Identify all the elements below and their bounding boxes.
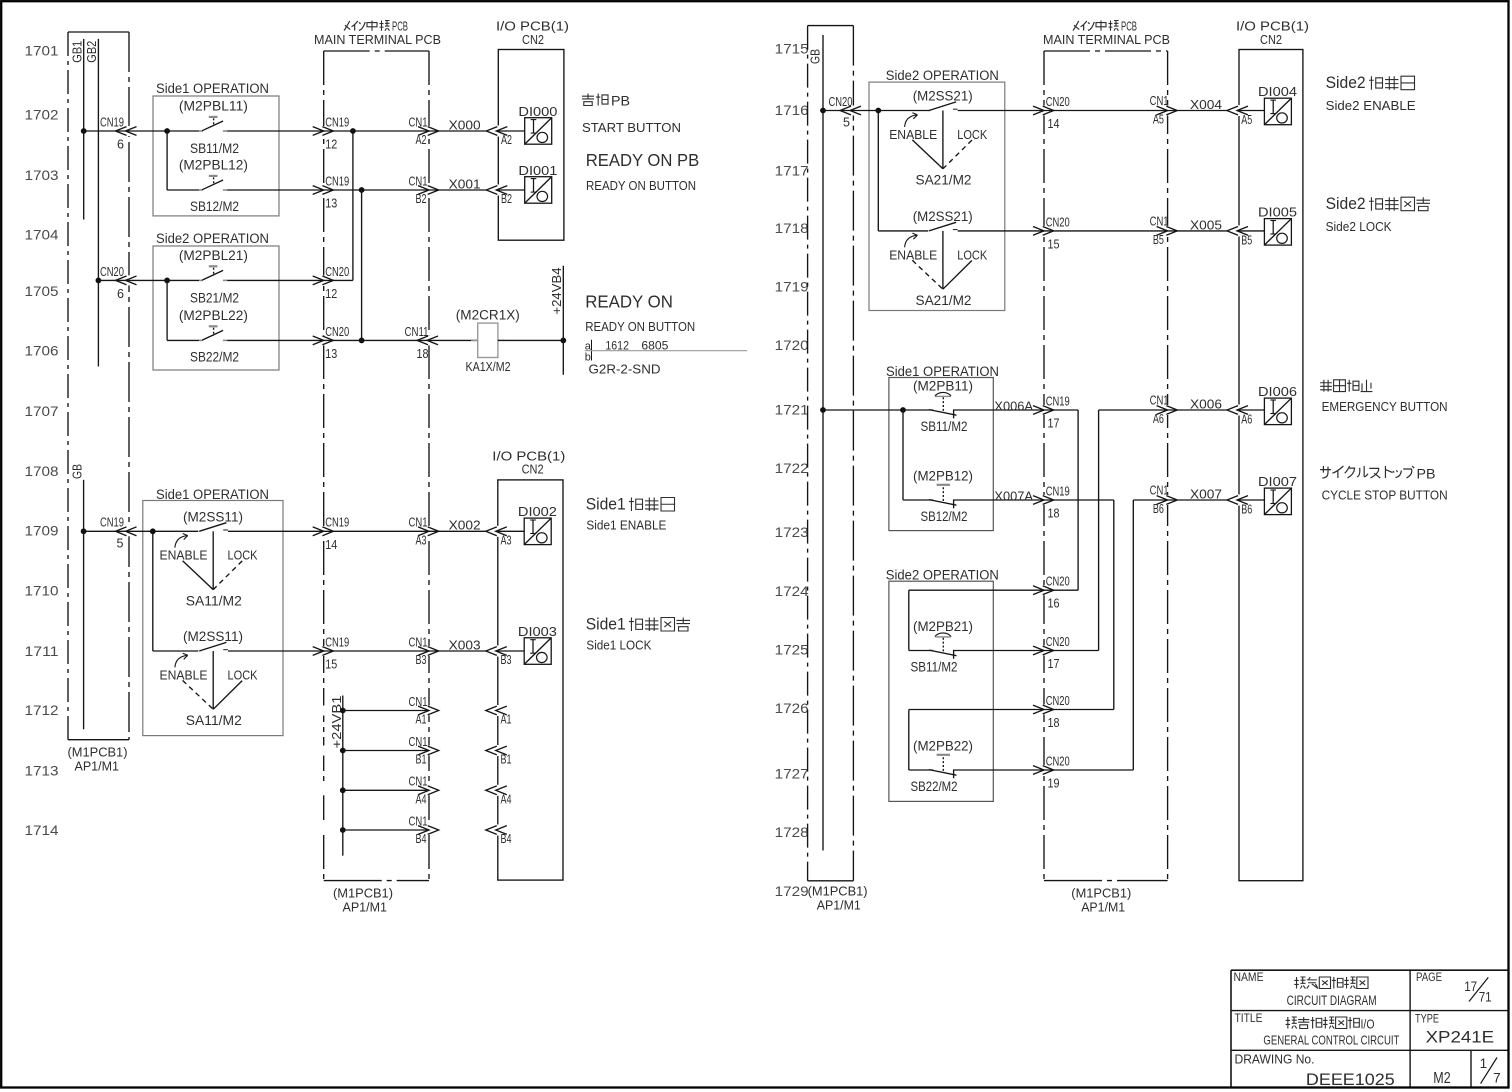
node r1 branch inside box [875,108,881,114]
svg-text:SB21/M2: SB21/M2 [190,290,239,305]
vertical tie CN20.19 to X007 [1132,500,1134,770]
vertical tie CN20.17 to X006 [1098,410,1100,651]
wire r3 pushbutton to main PCB [954,409,1044,411]
svg-text:CN20: CN20 [829,95,853,109]
connector arrow CN19 pin6 [116,127,127,136]
svg-text:12: 12 [325,138,337,152]
svg-text:CN20: CN20 [1046,215,1070,229]
svg-text:ENABLE: ENABLE [889,248,937,262]
node +24VB1 row B4 [340,827,346,833]
svg-text:DI000: DI000 [518,104,557,119]
svg-text:B5: B5 [1241,233,1252,247]
connector arrow CN1 pinA5 [1157,106,1168,115]
svg-text:SB12/M2: SB12/M2 [921,509,968,524]
connector arrow I/O A2 [486,127,497,136]
vertical tie CN19.17 to CN20.16 [1077,410,1079,590]
svg-text:1715: 1715 [775,41,809,57]
svg-text:XP241E: XP241E [1426,1028,1495,1046]
svg-text:PB: PB [611,93,630,109]
svg-text:I/O: I/O [1361,1017,1375,1032]
svg-text:X006: X006 [1190,397,1222,412]
svg-text:18: 18 [417,347,429,361]
svg-text:I/O PCB(1): I/O PCB(1) [1236,20,1309,34]
svg-text:16: 16 [1048,597,1060,611]
vertical feed inside Side2 box to M2PB21 [908,590,910,650]
connector arrow CN1 pinB1 [418,746,429,755]
svg-text:CN20: CN20 [1046,575,1070,589]
wire r7 feed CN20.18 into Side2 box [909,709,1044,711]
svg-text:B4: B4 [501,832,512,846]
Side2 OPERATION box upper [153,246,279,370]
wire r6 inside main PCB to v2 [1044,650,1099,652]
svg-text:CN1: CN1 [1150,394,1169,408]
connector arrow CN1 pinB2 [418,186,429,195]
wire X003 to I/O PCB [429,650,487,652]
connector arrow CN1 pinA6 [1157,406,1168,415]
svg-text:CN20: CN20 [1046,635,1070,649]
svg-text:CN1: CN1 [409,115,428,129]
svg-text:A2: A2 [501,133,512,147]
connector arrow CN19 pin13 [313,186,324,195]
wire to DI001 [497,189,525,191]
svg-text:AP1/M1: AP1/M1 [1081,900,1125,915]
svg-text:(M2PB22): (M2PB22) [913,739,973,754]
svg-text:(M1PCB1): (M1PCB1) [808,884,868,899]
svg-text:GB: GB [809,49,823,64]
wire r2 selector to main PCB [958,230,1044,232]
svg-text:DI002: DI002 [518,504,557,519]
connector arrow CN19 pin15 [313,647,324,656]
svg-text:1719: 1719 [775,279,809,295]
main terminal PCB box left [324,50,429,52]
svg-text:DI003: DI003 [518,624,557,639]
svg-text:1726: 1726 [775,700,809,716]
Side1 OPERATION box upper [153,96,279,216]
svg-text:READY ON PB: READY ON PB [586,150,700,170]
wire X006 to I/O PCB [1168,409,1228,411]
svg-text:SB11/M2: SB11/M2 [190,141,239,156]
connector arrow I/O A1 [486,706,497,715]
svg-text:1716: 1716 [775,102,809,118]
svg-text:GENERAL CONTROL CIRCUIT: GENERAL CONTROL CIRCUIT [1263,1033,1399,1048]
connector arrow I/O B2 [486,186,497,195]
connector arrow I/O B3 [486,647,497,656]
svg-text:AP1/M1: AP1/M1 [75,759,120,774]
svg-text:A2: A2 [416,133,427,147]
wire +24VB1 to CN1 B1 [343,750,429,752]
svg-text:START BUTTON: START BUTTON [582,120,681,135]
svg-text:13: 13 [325,347,337,361]
Side2 OPERATION box lower right [889,581,993,801]
svg-text:X000: X000 [449,117,481,132]
node +24VB1 row A1 [340,708,346,714]
wire r2 feed from r1 [877,111,879,231]
svg-text:SB12/M2: SB12/M2 [190,199,239,214]
wire to DI003 [496,650,524,652]
svg-text:5: 5 [843,116,850,130]
svg-text:A6: A6 [1241,413,1252,427]
wire w6 selector to main PCB [228,650,324,652]
connector arrow CN20 pin14 right [1033,106,1044,115]
svg-text:DEEE1025: DEEE1025 [1306,1071,1395,1089]
svg-text:(M1PCB1): (M1PCB1) [333,886,393,901]
svg-text:X007: X007 [1190,487,1222,502]
svg-text:1728: 1728 [775,824,809,840]
wire r6 pushbutton out CN20.17 [954,650,1044,652]
wire w1 inside main PCB [324,130,429,132]
svg-text:1: 1 [1480,1056,1488,1071]
connector arrow CN19 pin5 [116,527,127,536]
node w3 branch to SB22 [164,278,170,284]
svg-text:DI006: DI006 [1258,384,1297,399]
svg-text:19: 19 [1048,777,1060,791]
svg-text:12: 12 [325,287,337,301]
connector arrow I/O B4 [486,826,497,835]
wire +24VB1 to CN1 A4 [343,789,429,791]
wire to DI006 [1237,409,1264,411]
connector arrow I/O A5 [1227,106,1238,115]
wire r1 inside main PCB [1044,110,1168,112]
svg-text:15: 15 [1048,237,1060,251]
svg-text:(M2PB12): (M2PB12) [913,469,973,484]
svg-text:1725: 1725 [775,641,809,657]
svg-text:B4: B4 [416,832,427,846]
svg-text:CN19: CN19 [325,174,349,188]
wire w4 feed from w3 [166,280,168,340]
svg-text:(M2SS21): (M2SS21) [913,89,973,104]
connector arrow CN19 pin17 right [1033,406,1044,415]
svg-text:B5: B5 [1153,233,1164,247]
svg-text:13: 13 [325,197,337,211]
svg-text:SA21/M2: SA21/M2 [916,173,972,188]
wire w2 feed from w1 [166,131,168,190]
svg-text:LOCK: LOCK [228,668,259,682]
caption EMERGENCY BUTTON [1320,380,1332,392]
svg-text:CN1: CN1 [409,695,428,709]
connector arrow I/O B5 [1227,227,1238,236]
svg-text:READY ON BUTTON: READY ON BUTTON [585,319,695,334]
svg-text:(M2SS11): (M2SS11) [183,629,243,644]
svg-text:ENABLE: ENABLE [889,128,937,142]
wire w1 GB1 to switch SB11 [84,130,199,132]
svg-text:1718: 1718 [775,220,809,236]
wire r2 inside main PCB [1044,230,1168,232]
svg-text:A5: A5 [1153,113,1164,127]
wire X002 to I/O PCB [429,530,487,532]
svg-text:A3: A3 [501,533,512,547]
svg-text:71: 71 [1479,990,1492,1005]
svg-text:READY ON BUTTON: READY ON BUTTON [586,178,696,193]
svg-text:PCB: PCB [392,20,408,34]
svg-text:DI005: DI005 [1258,205,1297,220]
svg-text:Side2: Side2 [1326,74,1366,92]
svg-text:Side2 OPERATION: Side2 OPERATION [156,231,269,246]
wire r8 pushbutton out CN20.19 [954,769,1044,771]
svg-text:(M2PBL22): (M2PBL22) [179,308,248,323]
I/O PCB(1) CN2 box lower left [498,480,563,880]
wire r4 inside main PCB to tie v3 [1044,499,1114,501]
svg-text:B1: B1 [416,753,427,767]
svg-text:(M2PBL11): (M2PBL11) [179,98,248,113]
svg-text:1720: 1720 [775,337,809,353]
svg-text:1717: 1717 [775,162,809,178]
svg-text:I/O PCB(1): I/O PCB(1) [496,20,569,34]
svg-text:Side2 OPERATION: Side2 OPERATION [886,567,999,582]
svg-text:TITLE: TITLE [1235,1011,1263,1025]
node X001 junction [359,187,365,193]
connector arrow CN1 pinA3 [418,527,429,536]
svg-text:1705: 1705 [25,283,59,299]
caption CYCLE STOP BUTTON [1320,466,1331,478]
svg-text:(M2PB11): (M2PB11) [913,379,973,394]
wire w3 switch to main PCB [227,279,324,281]
svg-text:MAIN TERMINAL PCB: MAIN TERMINAL PCB [1043,33,1170,47]
svg-text:1703: 1703 [25,167,59,183]
operator panel PCB box (M1PCB1) AP1/M1 right [808,25,854,27]
svg-text:SA21/M2: SA21/M2 [916,293,972,308]
svg-text:DI001: DI001 [518,163,557,178]
svg-text:6: 6 [117,287,124,301]
wire to DI007 [1237,499,1264,501]
svg-text:SA11/M2: SA11/M2 [186,713,242,728]
wire w1 switch to main PCB [227,130,324,132]
svg-text:1721: 1721 [775,402,809,418]
svg-text:DRAWING No.: DRAWING No. [1235,1053,1315,1067]
svg-text:X005: X005 [1190,217,1222,232]
svg-text:SA11/M2: SA11/M2 [186,593,242,608]
wire w6 feed from w5 [152,531,154,651]
svg-text:AP1/M1: AP1/M1 [343,900,388,915]
svg-text:(M1PCB1): (M1PCB1) [1071,886,1131,901]
svg-text:B6: B6 [1241,503,1252,517]
svg-text:+24VB4: +24VB4 [550,267,564,314]
svg-text:17: 17 [1048,417,1060,431]
label MAIN TERMINAL PCB left [344,21,350,31]
svg-text:1701: 1701 [25,43,59,59]
svg-text:X003: X003 [449,637,481,652]
wire to DI004 [1237,110,1264,112]
svg-text:1712: 1712 [25,702,59,718]
svg-text:ENABLE: ENABLE [160,549,208,563]
svg-text:Side1 ENABLE: Side1 ENABLE [586,517,666,532]
wire X006 segment to CN1.A6 [1099,409,1168,411]
Side2 OPERATION box upper right [869,82,1005,310]
svg-text:CN1: CN1 [1150,484,1169,498]
svg-text:1704: 1704 [25,227,59,243]
svg-text:Side1: Side1 [586,616,626,634]
svg-text:PAGE: PAGE [1416,970,1442,984]
Side1 OPERATION box right [889,378,993,531]
node GB-CN20.5 [820,108,826,114]
svg-text:CN11: CN11 [405,325,429,339]
svg-text:GB1: GB1 [71,41,85,63]
connector arrow CN19 pin14 [313,527,324,536]
wire r5 feed CN20.16 into Side2 box [909,589,1044,591]
svg-text:Side1 OPERATION: Side1 OPERATION [886,364,999,379]
connector arrow CN1 pinB4 [418,826,429,835]
svg-text:(M2PBL12): (M2PBL12) [179,157,248,172]
svg-text:15: 15 [325,658,337,672]
svg-text:A4: A4 [501,792,512,806]
svg-text:CN20: CN20 [325,265,349,279]
svg-text:CN20: CN20 [100,265,124,279]
vertical feed inside Side2 box to M2PB22 [908,710,910,771]
svg-text:1711: 1711 [25,643,59,659]
connector arrow CN20 pin16 [1033,586,1044,595]
svg-text:1707: 1707 [25,403,59,419]
svg-text:1723: 1723 [775,524,809,540]
vertical tie CN19.12 to CN20.12 [352,131,354,280]
svg-text:1729: 1729 [775,883,809,899]
svg-text:LOCK: LOCK [228,549,259,563]
svg-text:1724: 1724 [775,583,809,599]
svg-text:B1: B1 [501,753,512,767]
svg-text:CN1: CN1 [409,735,428,749]
svg-text:17: 17 [1464,979,1477,994]
svg-text:CN1: CN1 [409,516,428,530]
svg-text:A4: A4 [416,793,427,807]
svg-text:A3: A3 [416,534,427,548]
svg-text:CYCLE STOP BUTTON: CYCLE STOP BUTTON [1322,487,1448,502]
svg-text:CN20: CN20 [1046,694,1070,708]
wire r7 inside main PCB to v3 [1044,709,1114,711]
wire X007 segment to CN1.B6 [1133,499,1167,501]
svg-text:18: 18 [1048,507,1060,521]
connector arrow CN20 pin19 [1033,766,1044,775]
wire w5 inside main PCB [324,530,429,532]
svg-text:18: 18 [1048,716,1060,730]
wire w4 to relay coil [429,339,478,341]
svg-text:I/O PCB(1): I/O PCB(1) [492,449,565,463]
svg-text:CN1: CN1 [409,775,428,789]
node X000 junction [350,128,356,134]
wire X007 to I/O PCB [1168,499,1228,501]
svg-text:DI004: DI004 [1258,84,1297,99]
svg-text:1714: 1714 [25,822,59,838]
svg-text:CN19: CN19 [100,516,124,530]
I/O PCB(1) CN2 box upper left [498,50,564,241]
svg-text:CIRCUIT DIAGRAM: CIRCUIT DIAGRAM [1287,993,1377,1008]
node GB-X006 tap [820,407,826,413]
svg-text:X001: X001 [449,176,481,191]
svg-text:SB11/M2: SB11/M2 [911,660,958,675]
svg-text:1722: 1722 [775,460,809,476]
wire +24VB1 to CN1 B4 [343,829,429,831]
wire w3 GB2 to switch SB21 [98,279,199,281]
svg-text:CN19: CN19 [325,115,349,129]
svg-text:CN19: CN19 [1046,484,1070,498]
svg-text:(M2SS21): (M2SS21) [913,209,973,224]
svg-text:B2: B2 [416,192,427,206]
svg-text:GB: GB [71,464,85,479]
svg-text:1709: 1709 [25,523,59,539]
wire r1 GB to selector SA21 [823,110,930,112]
connector arrow I/O A3 [486,527,497,536]
caption START BUTTON [582,94,594,106]
svg-text:TYPE: TYPE [1415,1012,1439,1026]
svg-text:CN1: CN1 [409,814,428,828]
svg-text:Side2 LOCK: Side2 LOCK [1326,219,1392,234]
svg-text:CN1: CN1 [1150,214,1169,228]
svg-text:1727: 1727 [775,766,809,782]
svg-text:X006A: X006A [994,400,1033,414]
svg-text:CN20: CN20 [1046,754,1070,768]
connector arrow CN1 pinB5 [1157,227,1168,236]
wire X001 to I/O PCB [429,189,487,191]
connector arrow CN1 pinB6 [1157,496,1168,505]
svg-text:MAIN TERMINAL PCB: MAIN TERMINAL PCB [314,33,441,47]
svg-text:5: 5 [117,536,124,550]
svg-text:A1: A1 [501,713,512,727]
wire X005 to I/O PCB [1168,230,1228,232]
wire relay to +24VB4 [498,339,563,341]
node +24VB1 row B1 [340,748,346,754]
connector arrow CN19 pin12 [313,127,324,136]
connector arrow I/O A4 [486,786,497,795]
connector arrow CN1 pinA2 [418,127,429,136]
svg-text:Side1 OPERATION: Side1 OPERATION [156,487,269,502]
wire r4 feed from r3 [902,410,904,500]
connector arrow CN1 pinB3 [418,647,429,656]
svg-text:1706: 1706 [25,343,59,359]
svg-text:1708: 1708 [25,463,59,479]
svg-text:G2R-2-SND: G2R-2-SND [589,362,661,377]
svg-text:(M2PB21): (M2PB21) [913,619,973,634]
connector arrow CN20 pin5 right [840,106,851,115]
svg-text:1710: 1710 [25,582,59,598]
svg-text:CN20: CN20 [325,325,349,339]
svg-text:DI007: DI007 [1258,474,1297,489]
wire w6 inside main PCB [324,650,429,652]
svg-text:B2: B2 [501,192,512,206]
label MAIN TERMINAL PCB right [1073,21,1079,31]
svg-text:SB22/M2: SB22/M2 [911,779,958,794]
svg-text:NAME: NAME [1234,970,1264,984]
wire r8 inside main PCB to v4 [1044,769,1133,771]
wire r4 pushbutton to main PCB [954,499,1044,501]
svg-text:KA1X/M2: KA1X/M2 [466,359,511,374]
wire X004 to I/O PCB [1168,110,1228,112]
svg-text:EMERGENCY BUTTON: EMERGENCY BUTTON [1322,399,1448,414]
node w5 branch inside box [150,528,156,534]
node +24VB1 row A4 [340,787,346,793]
connector arrow CN20 pin12 [313,276,324,285]
svg-text:B3: B3 [416,653,427,667]
wire r5 inside main PCB to v1 [1044,589,1078,591]
svg-text:Side1 OPERATION: Side1 OPERATION [156,81,269,96]
svg-text:17: 17 [1048,657,1060,671]
connector arrow CN20 pin13 [313,336,324,345]
svg-text:LOCK: LOCK [957,128,988,142]
svg-text:Side2: Side2 [1326,195,1366,213]
wire w4 inside main PCB [324,339,429,341]
wire w2 switch to main PCB [227,189,324,191]
connector arrow CN20 pin15 right [1033,227,1044,236]
node r3 branch to M2PB12 [900,407,906,413]
wire X000 to I/O PCB [429,130,487,132]
main terminal PCB box right [1044,50,1168,52]
connector arrow CN20 pin17 [1033,646,1044,655]
node GB-CN19.5 [81,528,87,534]
svg-text:X007A: X007A [994,490,1033,504]
svg-text:CN20: CN20 [1046,95,1070,109]
node GB2-CN20.6 [96,278,102,284]
svg-text:+24VB1: +24VB1 [330,695,344,748]
svg-text:CN1: CN1 [409,635,428,649]
svg-text:1713: 1713 [25,762,59,778]
connector arrow CN20 pin6 [116,276,127,285]
wire w2 inside main PCB [324,189,429,191]
